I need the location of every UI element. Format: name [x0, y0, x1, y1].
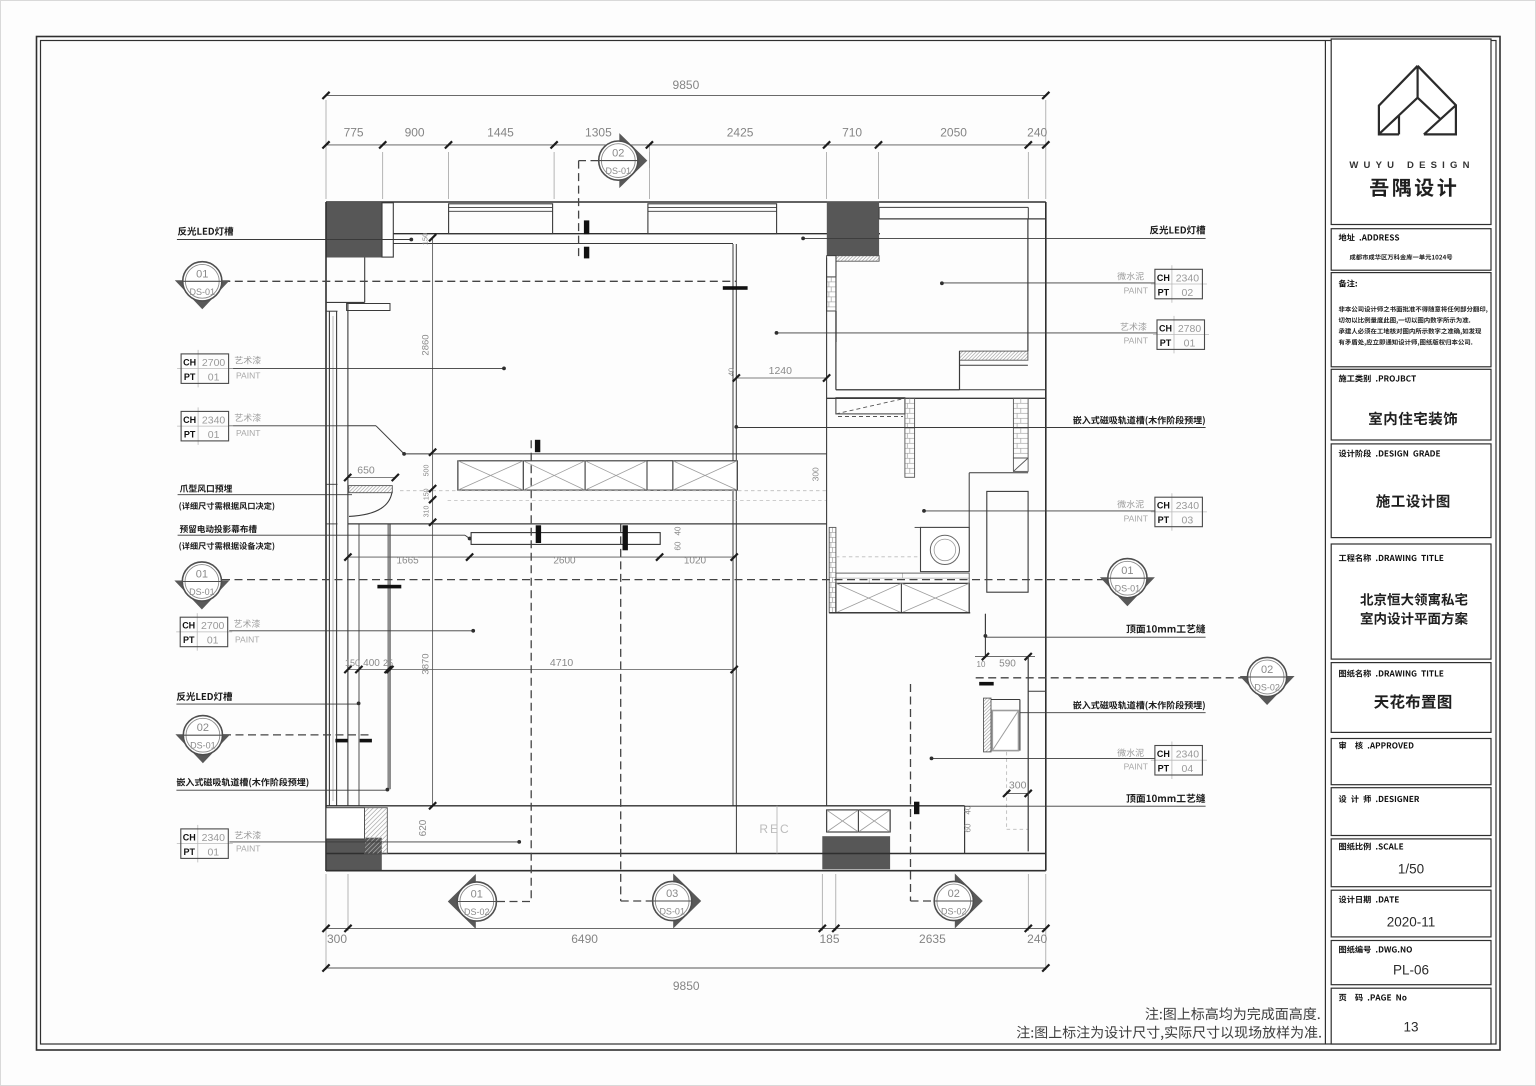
finish table CH 2340 / PT 01 [197, 407, 199, 445]
svg-text:150: 150 [421, 233, 430, 246]
leader LED cove right [803, 237, 1206, 239]
svg-text:2050: 2050 [940, 126, 967, 140]
section marker 01/DS-01 [1100, 577, 1155, 606]
section trace 03/DS-01 bottom [621, 900, 652, 902]
bottom band verticals [735, 806, 737, 854]
dim 300 corridor [1007, 792, 1029, 794]
right outer wall [1045, 202, 1047, 871]
svg-text:01: 01 [1184, 337, 1196, 349]
dim 1240 bedroom [736, 377, 826, 379]
leader CH2340 bottom [229, 841, 519, 843]
left wall outer [325, 202, 327, 871]
leader vent [178, 494, 352, 496]
section marker 02/DS-02 [955, 874, 983, 929]
svg-text:01: 01 [207, 635, 219, 647]
wedge corner line [348, 425, 376, 427]
interior wall line x348 [347, 302, 349, 805]
light dashed guide lines [400, 490, 826, 492]
svg-text:02: 02 [948, 888, 960, 900]
svg-text:02: 02 [1182, 287, 1194, 299]
svg-text:PAINT: PAINT [1124, 514, 1148, 524]
svg-text:DS-01: DS-01 [190, 287, 216, 297]
ceiling light trough (X band) [458, 461, 737, 490]
top-right band over bedroom [879, 206, 1028, 208]
niche light dashed [1006, 752, 1008, 829]
corridor east wall [1027, 657, 1029, 852]
brick wall strip right [1013, 398, 1028, 453]
witness lines bottom [325, 874, 327, 931]
bedroom hatched strip [950, 351, 1036, 360]
finish table CH 2340 / PT 03 [1171, 493, 1173, 531]
svg-text:60: 60 [674, 541, 683, 550]
svg-text:13: 13 [1403, 1020, 1418, 1035]
brick wall strip vertical [905, 398, 915, 473]
window box A [449, 204, 553, 234]
svg-text:2600: 2600 [553, 556, 576, 567]
svg-text:1020: 1020 [684, 556, 707, 567]
svg-text:40: 40 [674, 526, 683, 535]
svg-text:DS-02: DS-02 [1254, 683, 1280, 693]
svg-text:DS-01: DS-01 [606, 166, 632, 176]
bath cabinet (dashed) [836, 398, 905, 414]
svg-text:CH: CH [183, 415, 196, 425]
svg-text:PT: PT [184, 372, 196, 382]
bath bottom brick strip [836, 573, 969, 583]
svg-text:04: 04 [1182, 763, 1194, 775]
section marker 02/DS-02 [1240, 676, 1295, 705]
leader microcement 03 [924, 510, 1155, 512]
leader projector [178, 534, 465, 536]
dimension 9850 (top overall) [326, 94, 1046, 96]
svg-text:PL-06: PL-06 [1393, 963, 1429, 978]
svg-text:DS-01: DS-01 [190, 741, 216, 751]
svg-text:DS-01: DS-01 [1115, 584, 1141, 594]
svg-text:900: 900 [405, 126, 425, 140]
dimension row: 300/6490/185/2635/240 [326, 927, 1046, 929]
bath X band [836, 583, 969, 612]
corridor niche [930, 698, 1043, 752]
small dims 40/60 [964, 805, 973, 814]
svg-text:650: 650 [357, 465, 375, 477]
small boxes on west wall [827, 256, 836, 277]
dark column top-right [827, 202, 879, 256]
WUYU logo [1379, 66, 1456, 135]
bedroom/bath dividing wall [836, 389, 1046, 391]
magnetic track (grey) [387, 524, 391, 789]
svg-text:620: 620 [418, 819, 429, 836]
svg-text:CH: CH [1157, 749, 1170, 759]
svg-text:PT: PT [1160, 338, 1172, 348]
dark column bottom-right [822, 836, 890, 869]
title box proj [1331, 369, 1491, 440]
svg-text:1665: 1665 [396, 556, 419, 567]
svg-text:01: 01 [208, 429, 220, 441]
svg-text:02: 02 [197, 722, 209, 734]
bath inner corner [969, 472, 1028, 474]
hatched strip under TR column [830, 256, 881, 262]
svg-text:PT: PT [184, 429, 196, 439]
section line 01/DS-01 lower (to right marker) [222, 579, 1108, 581]
vertical dim chain x432 [432, 238, 434, 806]
projector screen slot [471, 533, 660, 545]
svg-text:60: 60 [964, 823, 973, 832]
bath light dashed [836, 556, 919, 558]
witness lines top [325, 152, 327, 199]
svg-text:2860: 2860 [421, 334, 432, 355]
title box dwg2 [1331, 663, 1491, 733]
svg-text:PAINT: PAINT [236, 844, 260, 854]
svg-text:01: 01 [208, 371, 220, 383]
svg-text:2340: 2340 [202, 832, 226, 844]
bottom band top line [326, 805, 965, 807]
svg-text:25: 25 [383, 658, 393, 668]
dark column top-left [326, 203, 382, 258]
window left wall [326, 310, 338, 312]
svg-text:01: 01 [471, 889, 483, 901]
rotated 620 bottom-left [418, 819, 429, 836]
vent curve [349, 493, 392, 517]
svg-text:2340: 2340 [1176, 749, 1200, 761]
svg-text:2340: 2340 [1176, 272, 1200, 284]
svg-text:CH: CH [1157, 501, 1170, 511]
svg-text:PT: PT [184, 847, 196, 857]
svg-text:PAINT: PAINT [235, 635, 259, 645]
bedroom west wall [835, 256, 837, 390]
bath bottom wall [829, 612, 970, 614]
plain segment in band [647, 461, 673, 490]
shower niche tall rect [987, 491, 1028, 592]
svg-text:DS-02: DS-02 [941, 907, 967, 917]
LED cove line below top wall [392, 243, 733, 245]
svg-text:DS-02: DS-02 [464, 907, 490, 917]
svg-text:CH: CH [183, 357, 196, 367]
svg-text:2340: 2340 [1176, 500, 1200, 512]
svg-text:2340: 2340 [202, 414, 226, 426]
vent hatched strip [342, 486, 398, 493]
title box addr [1331, 229, 1491, 271]
svg-text:300: 300 [327, 932, 347, 946]
svg-text:PAINT: PAINT [236, 371, 260, 381]
finish table CH 2700 / PT 01 [197, 350, 199, 388]
leader paint 2780 [777, 332, 1158, 334]
leader seam 10mm A [985, 636, 1205, 638]
svg-text:02: 02 [612, 148, 624, 160]
title box grade [1331, 444, 1491, 538]
svg-text:03: 03 [666, 888, 678, 900]
dark column bottom-left [327, 838, 382, 871]
svg-text:150: 150 [345, 658, 360, 668]
svg-text:9850: 9850 [673, 979, 700, 993]
svg-text:02: 02 [1261, 664, 1273, 676]
entry step below TL column [364, 258, 366, 303]
title box no [1331, 941, 1491, 985]
leader microcement 02 [942, 282, 1155, 284]
top wall outer edge [326, 201, 1046, 203]
svg-text:4710: 4710 [550, 657, 574, 669]
dimension row: 775/900/1445/1305/2425/710/2050/240 [326, 144, 1046, 146]
title box dwg1 [1331, 544, 1491, 659]
top wall inner edge [380, 233, 880, 235]
title box page [1331, 988, 1491, 1044]
title box date [1331, 890, 1491, 937]
svg-text:150: 150 [424, 488, 431, 500]
svg-text:DS-01: DS-01 [189, 587, 215, 597]
title box desg [1331, 788, 1491, 836]
svg-text:500: 500 [424, 465, 431, 477]
bottom-left white box [326, 808, 365, 839]
svg-text:2635: 2635 [919, 932, 946, 946]
svg-text:9850: 9850 [673, 78, 700, 92]
title box logo [1331, 39, 1491, 225]
leader CH2700 living [229, 630, 473, 632]
corridor step [984, 614, 986, 657]
section marker 01/DS-01 [175, 280, 230, 309]
west wall double line [826, 258, 828, 806]
leader track right 2 [1020, 712, 1206, 714]
svg-text:01: 01 [1121, 565, 1133, 577]
svg-text:10: 10 [977, 660, 986, 669]
bottom band mid line [326, 853, 1046, 855]
svg-text:2700: 2700 [202, 357, 226, 369]
finish table CH 2340 / PT 01 [197, 825, 199, 863]
svg-text:03: 03 [1182, 515, 1194, 527]
leader CH2700 entry [229, 367, 505, 369]
svg-text:240: 240 [1027, 126, 1047, 140]
svg-text:01: 01 [207, 846, 219, 858]
svg-text:WUYU DESIGN: WUYU DESIGN [1349, 160, 1474, 171]
svg-text:PT: PT [183, 635, 195, 645]
leader magnetic track left [176, 789, 388, 791]
living room east wall (double) [732, 244, 734, 806]
leader microcement 04 [932, 757, 1155, 759]
section line 02/DS-01 left [223, 734, 372, 736]
svg-text:CH: CH [1157, 273, 1170, 283]
bedroom ceiling outline [878, 207, 880, 219]
finish table CH 2700 / PT 01 [196, 613, 198, 651]
window box B [648, 204, 777, 234]
washing machine [921, 527, 970, 571]
dim 650 vent [348, 477, 396, 479]
svg-text:01: 01 [196, 569, 208, 581]
section marker 02/DS-01 [175, 734, 230, 763]
section trace 01/DS-02 bottom [497, 901, 531, 903]
svg-text:2425: 2425 [727, 126, 754, 140]
finish table CH 2340 / PT 04 [1171, 742, 1173, 780]
section trace 02/DS-01 top [579, 160, 599, 162]
svg-text:310: 310 [424, 506, 431, 518]
title box appr [1331, 739, 1491, 785]
title block left boundary [1324, 41, 1326, 1045]
svg-text:PAINT: PAINT [1124, 762, 1148, 772]
svg-text:PAINT: PAINT [1124, 286, 1148, 296]
svg-text:CH: CH [182, 621, 195, 631]
svg-text:6490: 6490 [571, 932, 598, 946]
svg-text:2780: 2780 [1178, 323, 1202, 335]
svg-text:CH: CH [183, 832, 196, 842]
shelf [347, 304, 390, 311]
dimension 9850 (bottom overall) [326, 967, 1046, 969]
svg-text:300: 300 [811, 467, 821, 481]
svg-text:185: 185 [819, 932, 839, 946]
horizontal dim 1665/2600/1020 [348, 556, 734, 558]
svg-text:REC: REC [759, 822, 790, 836]
line y524 [348, 523, 827, 525]
finish table CH 2780 / PT 01 [1173, 316, 1175, 354]
section marker 02/DS-01 [619, 133, 647, 188]
svg-text:PT: PT [1158, 287, 1170, 297]
svg-text:40: 40 [727, 368, 736, 376]
rotated dim 300 bath [811, 467, 821, 481]
REC area X box [827, 810, 891, 832]
section trace 02/DS-02 bottom [911, 900, 934, 902]
svg-text:1445: 1445 [487, 126, 514, 140]
svg-text:775: 775 [344, 126, 364, 140]
leader seam 10mm B [965, 805, 1206, 807]
svg-text:PAINT: PAINT [1124, 336, 1148, 346]
svg-text:590: 590 [999, 659, 1016, 670]
horizontal dim 150/400/25/4710 [348, 669, 734, 671]
svg-text:1240: 1240 [769, 365, 793, 377]
bottom-left hatch box [319, 808, 433, 854]
title box scale [1331, 839, 1491, 887]
svg-text:710: 710 [842, 126, 862, 140]
leader CH2340 entry2 [229, 425, 348, 427]
section line 02/DS-02 right [976, 677, 1247, 679]
svg-text:1305: 1305 [585, 126, 612, 140]
beam line y454 [404, 453, 826, 455]
svg-text:PT: PT [1158, 515, 1170, 525]
section marker 01/DS-02 [448, 874, 476, 929]
white box right of TL column [382, 203, 393, 257]
section line 01/DS-01 upper [222, 280, 736, 282]
svg-text:240: 240 [1027, 932, 1047, 946]
section marker 03/DS-01 [673, 874, 701, 929]
rotated 150 at LED cove [421, 233, 430, 246]
svg-text:300: 300 [1009, 780, 1027, 792]
leader magnetic track right [736, 427, 1205, 429]
bath west brick strip [829, 527, 836, 612]
interior wall line x359 [358, 524, 360, 806]
title box note [1331, 273, 1491, 367]
svg-text:DS-01: DS-01 [659, 907, 685, 917]
bottom band outer line [326, 870, 1046, 872]
section marker 01/DS-01 [174, 581, 229, 610]
svg-text:3870: 3870 [421, 653, 432, 674]
finish table CH 2340 / PT 02 [1171, 265, 1173, 303]
svg-text:PAINT: PAINT [236, 428, 260, 438]
leader LED cove left 2 [176, 703, 359, 705]
svg-text:CH: CH [1159, 323, 1172, 333]
svg-text:400: 400 [363, 658, 380, 669]
svg-text:PT: PT [1158, 764, 1170, 774]
dim 590 [975, 656, 1035, 658]
svg-text:2020-11: 2020-11 [1387, 915, 1436, 930]
leader LED cove left [177, 239, 411, 241]
svg-text:1/50: 1/50 [1398, 862, 1424, 877]
svg-text:01: 01 [196, 268, 208, 280]
svg-text:2700: 2700 [201, 620, 225, 632]
